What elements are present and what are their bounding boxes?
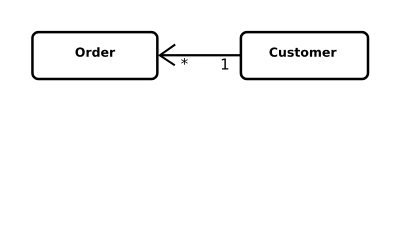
class box Customer [241, 32, 368, 79]
label Customer [269, 47, 336, 56]
label Order [75, 47, 115, 57]
multiplicity label * [181, 58, 188, 65]
class box Order [32, 32, 157, 79]
wire association Order-Customer [160, 54, 241, 56]
arrowhead open, points to Order [160, 45, 175, 66]
multiplicity label 1 [222, 59, 229, 70]
